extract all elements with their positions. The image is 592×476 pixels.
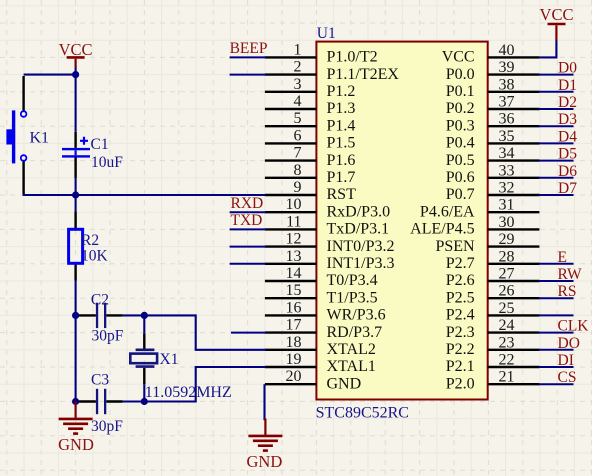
svg-text:P2.5: P2.5 xyxy=(446,289,475,306)
U1 pin 38 (P0.1) xyxy=(446,76,574,100)
svg-text:11.0592MHZ: 11.0592MHZ xyxy=(145,384,232,401)
svg-text:CLK: CLK xyxy=(558,318,590,335)
U1 pin 37 (P0.2) xyxy=(446,94,574,118)
resistor R2 xyxy=(69,211,83,280)
svg-text:STC89C52RC: STC89C52RC xyxy=(316,405,409,422)
wire C2 right to node D xyxy=(123,314,145,316)
svg-text:DI: DI xyxy=(558,352,574,369)
svg-text:D3: D3 xyxy=(558,111,577,128)
svg-text:P4.6/EA: P4.6/EA xyxy=(420,203,475,220)
svg-text:P1.4: P1.4 xyxy=(327,117,356,134)
ground GND (bottom, U1 pin 20) xyxy=(248,419,282,451)
svg-text:27: 27 xyxy=(499,266,515,283)
svg-text:P2.7: P2.7 xyxy=(446,255,475,272)
junction node D (XTAL2) xyxy=(141,312,148,319)
svg-text:36: 36 xyxy=(499,111,515,128)
svg-text:RxD/P3.0: RxD/P3.0 xyxy=(327,203,391,220)
wire R2 to node C xyxy=(75,281,77,316)
wire C1 bottom to node B xyxy=(75,178,77,195)
U1 pin 10 (RxD/P3.0) xyxy=(230,196,390,220)
svg-text:D2: D2 xyxy=(558,94,577,111)
svg-text:21: 21 xyxy=(499,369,515,386)
U1 pin 2 (P1.1/T2EX) xyxy=(230,59,400,83)
svg-text:5: 5 xyxy=(294,110,302,127)
wire VCC rail to node A (top) xyxy=(24,74,76,76)
svg-text:P0.3: P0.3 xyxy=(446,117,475,134)
svg-text:29: 29 xyxy=(499,231,515,248)
ground GND (left) xyxy=(59,402,93,434)
svg-text:P0.4: P0.4 xyxy=(446,135,475,152)
crystal X1 xyxy=(130,333,157,384)
svg-text:30pF: 30pF xyxy=(91,418,123,435)
U1 pin 36 (P0.3) xyxy=(446,111,574,135)
capacitor C1 (polarized) xyxy=(62,132,90,178)
svg-text:9: 9 xyxy=(294,179,302,196)
U1 pin 22 (P2.1) xyxy=(446,352,574,376)
svg-text:X1: X1 xyxy=(160,351,179,368)
svg-text:P0.2: P0.2 xyxy=(446,100,475,117)
wire X1 bottom to node F xyxy=(143,384,145,401)
U1 pin 11 (TxD/P3.1) xyxy=(230,213,390,237)
wire node C down to node E xyxy=(75,315,77,401)
svg-text:34: 34 xyxy=(499,145,515,162)
capacitor C3 xyxy=(79,389,123,414)
U1 pin 18 (XTAL2) xyxy=(265,334,376,358)
svg-text:8: 8 xyxy=(294,162,302,179)
svg-text:C2: C2 xyxy=(91,291,109,308)
svg-text:D5: D5 xyxy=(558,146,577,163)
U1 pin 28 (P2.7) xyxy=(446,248,574,272)
svg-text:25: 25 xyxy=(499,300,515,317)
svg-text:C3: C3 xyxy=(91,372,109,389)
svg-text:E: E xyxy=(558,249,567,266)
U1 pin 5 (P1.4) xyxy=(265,110,356,134)
svg-text:D4: D4 xyxy=(558,128,577,145)
switch K1 xyxy=(6,76,26,194)
svg-text:P1.6: P1.6 xyxy=(327,152,356,169)
U1 pin 39 (P0.0) xyxy=(446,59,574,83)
svg-text:19: 19 xyxy=(286,351,302,368)
svg-text:GND: GND xyxy=(58,435,94,454)
svg-text:TXD: TXD xyxy=(231,212,263,229)
svg-text:P1.3: P1.3 xyxy=(327,100,356,117)
U1 pin 34 (P0.5) xyxy=(446,145,574,169)
U1 pin 6 (P1.5) xyxy=(265,127,356,151)
svg-text:BEEP: BEEP xyxy=(230,40,268,57)
U1 pin 40 (VCC) xyxy=(442,42,540,66)
wire K1 bottom to node B xyxy=(24,193,76,196)
svg-text:GND: GND xyxy=(327,375,362,392)
svg-text:P0.6: P0.6 xyxy=(446,169,475,186)
U1 pin 29 (PSEN) xyxy=(435,231,539,255)
wire node B to U1 pin 9 (RST) xyxy=(76,194,266,196)
svg-text:P1.0/T2: P1.0/T2 xyxy=(327,49,378,66)
svg-text:23: 23 xyxy=(499,334,515,351)
svg-text:30pF: 30pF xyxy=(92,328,124,345)
svg-text:22: 22 xyxy=(499,352,515,369)
svg-text:38: 38 xyxy=(499,76,515,93)
svg-text:DO: DO xyxy=(558,335,580,352)
svg-text:30: 30 xyxy=(499,214,515,231)
svg-text:12: 12 xyxy=(286,231,302,248)
svg-text:26: 26 xyxy=(499,283,515,300)
wire node B down to R2 xyxy=(75,195,77,211)
wire node D to U1 pin 18 (XTAL2) xyxy=(144,315,266,349)
IC U1 STC89C52RC body xyxy=(316,42,487,400)
svg-text:RS: RS xyxy=(558,283,577,300)
svg-text:K1: K1 xyxy=(30,129,50,146)
wire U1 pin 40 to right VCC xyxy=(539,40,556,58)
svg-text:P2.3: P2.3 xyxy=(446,324,475,341)
svg-text:D7: D7 xyxy=(558,180,577,197)
U1 pin 19 (XTAL1) xyxy=(265,351,376,375)
svg-text:P2.0: P2.0 xyxy=(446,375,475,392)
capacitor C2 xyxy=(79,303,123,328)
U1 pin 27 (P2.6) xyxy=(446,266,574,290)
svg-text:P1.1/T2EX: P1.1/T2EX xyxy=(327,66,400,83)
svg-text:16: 16 xyxy=(286,299,302,316)
U1 pin 26 (P2.5) xyxy=(446,283,574,307)
svg-text:P2.2: P2.2 xyxy=(446,341,475,358)
junction node F (XTAL1) xyxy=(141,398,148,405)
svg-text:VCC: VCC xyxy=(59,40,93,59)
U1 pin 24 (P2.3) xyxy=(446,317,574,341)
svg-text:P0.0: P0.0 xyxy=(446,66,475,83)
svg-text:D0: D0 xyxy=(558,60,577,77)
svg-text:P2.6: P2.6 xyxy=(446,272,475,289)
svg-text:PSEN: PSEN xyxy=(435,238,475,255)
U1 pin 20 (GND) xyxy=(265,368,361,392)
svg-text:P0.7: P0.7 xyxy=(446,186,475,203)
svg-text:3: 3 xyxy=(294,76,302,93)
U1 pin 14 (T0/P3.4) xyxy=(265,265,378,289)
junction node B (RST) xyxy=(72,191,79,198)
svg-text:1: 1 xyxy=(294,41,302,58)
U1 pin 1 (P1.0/T2) xyxy=(230,41,378,65)
svg-text:P1.2: P1.2 xyxy=(327,83,356,100)
U1 pin 35 (P0.4) xyxy=(446,128,574,152)
wire U1 pin 20 to bottom GND xyxy=(263,384,265,420)
U1 pin 30 (ALE/P4.5) xyxy=(410,214,539,238)
svg-text:D1: D1 xyxy=(558,77,577,94)
svg-text:D6: D6 xyxy=(558,163,577,180)
U1 pin 23 (P2.2) xyxy=(446,334,574,358)
svg-text:VCC: VCC xyxy=(442,49,475,66)
svg-text:2: 2 xyxy=(294,59,302,76)
svg-text:32: 32 xyxy=(499,180,515,197)
svg-text:11: 11 xyxy=(286,213,301,230)
svg-text:T0/P3.4: T0/P3.4 xyxy=(327,272,378,289)
svg-text:C1: C1 xyxy=(91,136,109,153)
wire node D down to X1 top xyxy=(143,315,145,333)
junction node C (C2 left) xyxy=(72,312,79,319)
U1 pin 13 (INT1/P3.3) xyxy=(230,248,395,272)
U1 pin 16 (WR/P3.6) xyxy=(265,299,386,323)
svg-text:P1.5: P1.5 xyxy=(327,135,356,152)
svg-text:24: 24 xyxy=(499,317,515,334)
U1 pin 12 (INT0/P3.2) xyxy=(230,231,395,255)
svg-text:RW: RW xyxy=(558,266,582,283)
svg-text:RD/P3.7: RD/P3.7 xyxy=(327,324,383,341)
svg-text:RST: RST xyxy=(327,186,357,203)
svg-text:U1: U1 xyxy=(317,25,336,42)
svg-text:17: 17 xyxy=(286,317,302,334)
svg-text:40: 40 xyxy=(499,42,515,59)
power flag VCC (left) xyxy=(67,57,85,67)
svg-text:CS: CS xyxy=(558,369,577,386)
U1 pin 9 (RST) xyxy=(265,179,356,203)
U1 pin 21 (P2.0) xyxy=(446,369,574,393)
wire node A down to C1 xyxy=(75,67,77,132)
svg-text:18: 18 xyxy=(286,334,302,351)
U1 pin 25 (P2.4) xyxy=(446,300,574,324)
U1 pin 4 (P1.3) xyxy=(265,93,356,117)
svg-text:15: 15 xyxy=(286,282,302,299)
svg-text:31: 31 xyxy=(499,197,515,214)
U1 pin 17 (RD/P3.7) xyxy=(231,317,382,341)
U1 pin 31 (P4.6/EA) xyxy=(420,197,539,221)
svg-text:GND: GND xyxy=(247,452,283,471)
svg-text:14: 14 xyxy=(286,265,302,282)
svg-text:XTAL2: XTAL2 xyxy=(327,341,376,358)
svg-text:4: 4 xyxy=(294,93,302,110)
power flag VCC (right) xyxy=(548,24,566,41)
svg-text:T1/P3.5: T1/P3.5 xyxy=(327,289,378,306)
svg-text:P0.5: P0.5 xyxy=(446,152,475,169)
U1 pin 7 (P1.6) xyxy=(265,145,356,169)
svg-text:VCC: VCC xyxy=(540,5,574,24)
svg-text:P2.1: P2.1 xyxy=(446,358,475,375)
svg-text:P2.4: P2.4 xyxy=(446,307,475,324)
svg-text:20: 20 xyxy=(286,368,302,385)
wire C3 right to node F xyxy=(123,400,145,402)
svg-text:10K: 10K xyxy=(81,248,109,265)
junction node E (GND rail) xyxy=(72,398,79,405)
svg-text:7: 7 xyxy=(294,145,302,162)
svg-text:P0.1: P0.1 xyxy=(446,83,475,100)
junction node A (VCC/K1/C1) xyxy=(72,71,79,78)
U1 pin 8 (P1.7) xyxy=(265,162,356,186)
U1 pin 3 (P1.2) xyxy=(265,76,356,100)
U1 pin 32 (P0.7) xyxy=(446,180,574,204)
U1 pin 33 (P0.6) xyxy=(446,162,574,186)
svg-text:35: 35 xyxy=(499,128,515,145)
wire node F to U1 pin 19 (XTAL1) xyxy=(144,367,266,402)
svg-text:WR/P3.6: WR/P3.6 xyxy=(327,307,386,324)
svg-text:6: 6 xyxy=(294,127,302,144)
svg-text:28: 28 xyxy=(499,248,515,265)
svg-text:RXD: RXD xyxy=(231,195,264,212)
svg-text:INT1/P3.3: INT1/P3.3 xyxy=(327,255,395,272)
svg-text:P1.7: P1.7 xyxy=(327,169,356,186)
svg-text:10uF: 10uF xyxy=(91,154,123,171)
svg-text:37: 37 xyxy=(499,94,515,111)
svg-text:XTAL1: XTAL1 xyxy=(327,358,376,375)
svg-text:INT0/P3.2: INT0/P3.2 xyxy=(327,238,395,255)
svg-text:33: 33 xyxy=(499,162,515,179)
svg-text:39: 39 xyxy=(499,59,515,76)
svg-text:10: 10 xyxy=(286,196,302,213)
svg-text:13: 13 xyxy=(286,248,302,265)
svg-text:TxD/P3.1: TxD/P3.1 xyxy=(327,221,390,238)
svg-text:ALE/P4.5: ALE/P4.5 xyxy=(410,221,474,238)
svg-text:R2: R2 xyxy=(81,232,99,249)
U1 pin 15 (T1/P3.5) xyxy=(265,282,378,306)
